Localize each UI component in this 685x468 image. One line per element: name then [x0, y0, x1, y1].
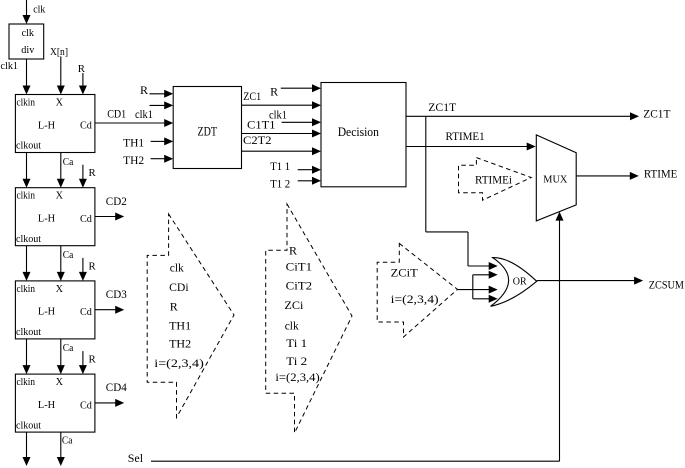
- svg-text:Ca: Ca: [63, 249, 74, 261]
- svg-text:L-H: L-H: [38, 307, 56, 318]
- svg-text:R: R: [140, 83, 148, 97]
- svg-text:X: X: [56, 191, 64, 202]
- svg-text:ZCSUM: ZCSUM: [649, 278, 684, 292]
- svg-text:RTIMEi: RTIMEi: [475, 173, 513, 187]
- svg-text:R: R: [289, 244, 297, 258]
- svg-text:R: R: [89, 354, 97, 366]
- svg-text:Cd: Cd: [80, 400, 92, 411]
- svg-text:clk1: clk1: [135, 107, 153, 121]
- svg-text:C1T1: C1T1: [247, 118, 276, 132]
- svg-text:ZDT: ZDT: [198, 125, 218, 139]
- svg-text:CD4: CD4: [106, 380, 127, 394]
- svg-text:T1 1: T1 1: [270, 159, 290, 173]
- svg-text:MUX: MUX: [543, 175, 567, 186]
- svg-text:CD2: CD2: [106, 194, 127, 208]
- svg-text:div: div: [21, 45, 35, 56]
- svg-text:ZCiT: ZCiT: [391, 265, 419, 279]
- svg-text:clkout: clkout: [16, 141, 41, 152]
- svg-text:clk: clk: [22, 28, 35, 39]
- svg-text:ZCi: ZCi: [284, 298, 304, 312]
- svg-text:CDi: CDi: [169, 280, 189, 294]
- svg-text:clkin: clkin: [17, 191, 36, 202]
- svg-text:CD1: CD1: [107, 107, 126, 121]
- svg-text:i=(2,3,4): i=(2,3,4): [154, 356, 204, 370]
- svg-text:TH2: TH2: [169, 337, 191, 351]
- svg-text:TH1: TH1: [169, 318, 191, 332]
- svg-text:Sel: Sel: [128, 451, 144, 465]
- svg-text:R: R: [270, 85, 278, 99]
- svg-text:T1 2: T1 2: [270, 177, 290, 191]
- svg-text:CiT1: CiT1: [286, 260, 313, 274]
- svg-text:R: R: [78, 63, 86, 75]
- svg-text:Ca: Ca: [62, 435, 73, 447]
- svg-text:L-H: L-H: [38, 214, 56, 225]
- svg-text:i=(2,3,4): i=(2,3,4): [391, 292, 439, 306]
- svg-text:X: X: [56, 284, 64, 295]
- svg-text:clkout: clkout: [16, 327, 41, 338]
- svg-text:CiT2: CiT2: [286, 278, 313, 292]
- svg-text:Cd: Cd: [80, 121, 92, 132]
- svg-text:L-H: L-H: [38, 120, 56, 131]
- svg-text:clk: clk: [33, 4, 46, 16]
- svg-text:clkout: clkout: [16, 234, 41, 245]
- svg-text:clkin: clkin: [17, 98, 36, 109]
- svg-text:clk1: clk1: [1, 60, 19, 72]
- svg-text:X[n]: X[n]: [50, 46, 68, 58]
- svg-text:clkout: clkout: [16, 420, 41, 431]
- svg-text:CD3: CD3: [106, 287, 127, 301]
- svg-text:X: X: [56, 377, 64, 388]
- svg-text:clkin: clkin: [17, 377, 36, 388]
- svg-text:TH2: TH2: [123, 153, 144, 167]
- svg-text:Cd: Cd: [80, 307, 92, 318]
- svg-text:R: R: [89, 167, 97, 179]
- svg-text:TH1: TH1: [123, 136, 144, 150]
- svg-text:ZC1T: ZC1T: [428, 100, 457, 114]
- svg-text:L-H: L-H: [38, 400, 56, 411]
- svg-text:Ca: Ca: [63, 342, 74, 354]
- svg-text:clkin: clkin: [17, 284, 36, 295]
- svg-text:Cd: Cd: [80, 214, 92, 225]
- svg-text:RTIME1: RTIME1: [446, 129, 485, 143]
- svg-text:OR: OR: [513, 277, 527, 288]
- svg-text:ZC1: ZC1: [243, 89, 261, 103]
- svg-text:clk: clk: [285, 318, 299, 332]
- svg-text:R: R: [170, 299, 178, 313]
- svg-text:Decision: Decision: [338, 125, 379, 139]
- svg-text:Ti 1: Ti 1: [286, 336, 307, 350]
- svg-text:Ti 2: Ti 2: [286, 354, 307, 368]
- svg-text:X: X: [56, 98, 64, 109]
- svg-text:R: R: [89, 260, 97, 272]
- svg-text:C2T2: C2T2: [243, 133, 272, 147]
- svg-text:Ca: Ca: [63, 156, 74, 168]
- svg-text:RTIME: RTIME: [644, 167, 678, 181]
- svg-text:i=(2,3,4): i=(2,3,4): [275, 370, 319, 384]
- svg-text:ZC1T: ZC1T: [643, 107, 671, 121]
- svg-text:clk: clk: [170, 261, 184, 275]
